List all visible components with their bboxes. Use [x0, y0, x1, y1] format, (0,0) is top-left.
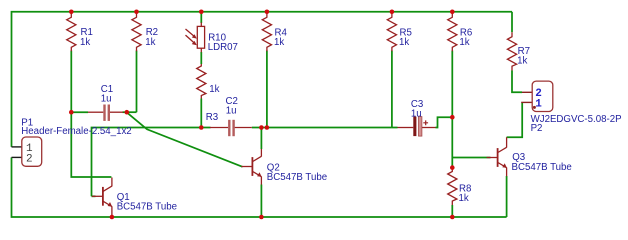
svg-text:BC547B Tube: BC547B Tube [267, 172, 327, 183]
svg-text:LDR07: LDR07 [208, 42, 238, 53]
svg-text:1k: 1k [274, 37, 284, 48]
wire R7 top [511, 12, 513, 32]
svg-text:2: 2 [26, 153, 33, 165]
node junction C1 left/R1 column [69, 110, 74, 115]
resistor R5 [387, 12, 396, 52]
resistor R8 [448, 168, 472, 205]
wire R8 bottom [451, 205, 453, 217]
svg-text:BC547B Tube: BC547B Tube [117, 202, 177, 213]
svg-text:1u: 1u [411, 108, 422, 119]
svg-text:P2: P2 [531, 123, 543, 134]
capacitor C3 (polarized) [398, 99, 436, 136]
connector P2 [521, 81, 621, 134]
node junction Q1 emitter/bottom rail [110, 215, 115, 220]
wire R4 column [266, 51, 268, 128]
wire C3 right to R6 column [436, 117, 453, 127]
wire R10-R3 column pieces [200, 13, 202, 24]
node junction R4/top rail [265, 10, 270, 15]
capacitor C2 [210, 96, 252, 136]
node junction R10/top rail [199, 10, 204, 15]
wire Q1 base stub [92, 195, 96, 197]
resistor R7 [507, 32, 530, 70]
resistor R1 [67, 12, 76, 52]
resistor R4 [262, 12, 271, 52]
svg-text:1k: 1k [145, 37, 155, 48]
node junction C1 right/diagonal [125, 110, 130, 115]
node junction R5/top rail [390, 10, 395, 15]
wire top rail [12, 12, 513, 147]
node junction R4/mid wire [265, 125, 270, 130]
capacitor C1 [88, 84, 123, 121]
wire R1 column [71, 51, 111, 178]
node junction R8 top [450, 165, 455, 170]
wire Q3 emitter down [506, 176, 508, 217]
svg-text:1u: 1u [226, 106, 237, 117]
wire R7 bottom to P2 pin2 [512, 71, 522, 93]
svg-text:1k: 1k [80, 37, 90, 48]
wire left rail down + bottom rail [12, 157, 507, 217]
resistor R3 [197, 64, 220, 123]
resistor R6 [448, 12, 457, 52]
transistor Q2 [241, 156, 261, 177]
wire Q2 emitter down [260, 185, 262, 218]
wire mid horizontal left [92, 128, 211, 197]
svg-text:1k: 1k [399, 37, 409, 48]
transistor Q1 [92, 186, 112, 207]
photoresistor R10 [186, 23, 238, 54]
wire Q3 base [452, 157, 490, 159]
node junction R6/top rail [450, 10, 455, 15]
svg-text:BC547B Tube: BC547B Tube [512, 162, 572, 173]
wire mid horizontal right [252, 127, 392, 129]
node junction Q2 emitter/bottom rail [259, 215, 264, 220]
wire R6 column [451, 51, 453, 168]
connector P1 [12, 118, 132, 167]
node junction R8/bottom rail [450, 215, 455, 220]
svg-text:R3: R3 [206, 112, 218, 123]
wire Q2 collector up [260, 128, 262, 150]
svg-text:WJ2EDGVC-5.08-2P: WJ2EDGVC-5.08-2P [531, 114, 622, 125]
svg-text:1: 1 [535, 99, 542, 111]
wire R2 column [136, 51, 138, 113]
svg-text:1k: 1k [209, 84, 219, 95]
wire diagonal to Q2 base [127, 112, 243, 166]
node junction R2/top rail [134, 10, 139, 15]
wire C1 left [71, 111, 88, 113]
transistor Q3 [487, 147, 507, 168]
svg-text:1k: 1k [517, 56, 527, 67]
resistor R2 [132, 12, 141, 52]
wire R5 column [391, 51, 393, 128]
svg-text:1k: 1k [459, 193, 469, 204]
svg-text:Header-Female-2.54_1x2: Header-Female-2.54_1x2 [21, 126, 131, 137]
wire C3 left stub [392, 127, 398, 129]
svg-text:1u: 1u [101, 93, 112, 104]
node junction Q2 collector/mid wire [259, 125, 264, 130]
wire Q3 collector to P2 pin1 [507, 102, 523, 137]
node junction R1/top rail [69, 10, 74, 15]
node junction C3/R6 column [450, 115, 455, 120]
node junction R3/mid wire [199, 125, 204, 130]
svg-text:1k: 1k [459, 37, 469, 48]
wire C1 right [123, 111, 137, 113]
